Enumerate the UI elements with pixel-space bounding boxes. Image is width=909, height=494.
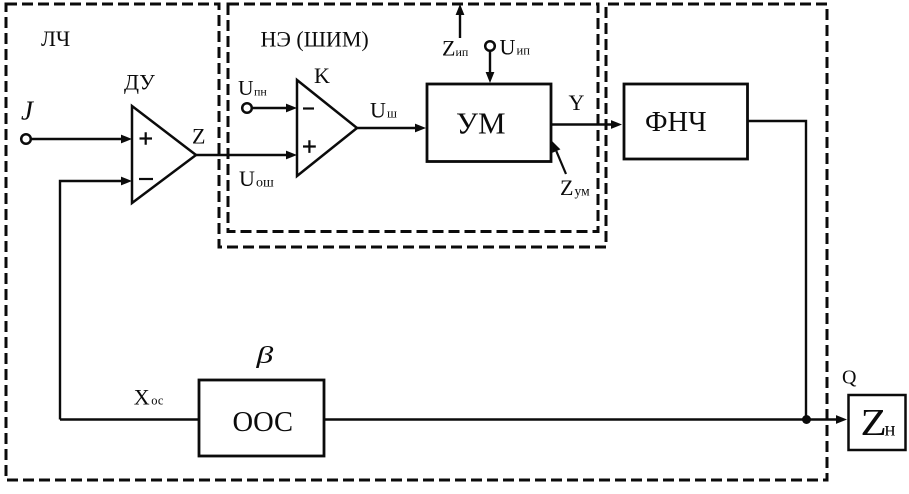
svg-text:ум: ум [575,184,591,199]
svg-text:U: U [238,76,254,100]
svg-text:н: н [885,419,896,441]
svg-text:Z: Z [861,401,887,443]
svg-text:ДУ: ДУ [124,69,155,94]
svg-text:ос: ос [151,394,164,408]
svg-text:ип: ип [517,44,531,58]
svg-text:Y: Y [569,90,585,115]
svg-text:Z: Z [192,124,205,149]
svg-text:β: β [255,342,273,368]
svg-text:U: U [370,97,386,122]
svg-text:U: U [500,34,516,59]
svg-text:ош: ош [256,175,274,190]
svg-text:J: J [21,96,35,126]
svg-text:ФНЧ: ФНЧ [645,107,707,138]
svg-text:ООС: ООС [233,407,294,438]
svg-text:U: U [239,166,255,191]
svg-text:НЭ (ШИМ): НЭ (ШИМ) [261,26,369,51]
svg-text:K: K [314,63,330,88]
svg-text:X: X [134,384,150,409]
svg-text:ш: ш [387,106,397,121]
svg-text:Q: Q [842,367,857,389]
svg-text:пн: пн [254,85,267,99]
svg-text:ип: ип [456,45,469,59]
svg-text:УМ: УМ [456,106,506,141]
svg-text:Z: Z [442,36,455,61]
svg-text:ЛЧ: ЛЧ [41,26,70,51]
svg-text:Z: Z [560,175,573,200]
